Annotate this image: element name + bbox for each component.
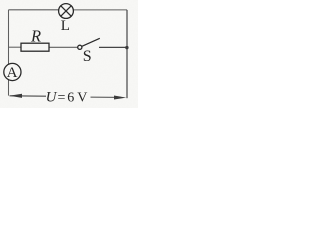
svg-text:U: U	[46, 90, 58, 106]
wire top-left segment	[9, 9, 59, 11]
wire middle branch left lead	[9, 46, 22, 48]
svg-text:=: =	[58, 91, 66, 106]
svg-text:V: V	[77, 91, 87, 106]
junction node right	[125, 46, 128, 49]
wire top-right segment	[73, 9, 127, 11]
wire right side	[126, 10, 128, 98]
svg-text:R: R	[30, 26, 41, 45]
svg-text:A: A	[7, 65, 18, 81]
svg-text:L: L	[61, 18, 70, 34]
svg-text:6: 6	[67, 91, 74, 106]
voltage annotation right arrow	[91, 96, 127, 100]
svg-text:S: S	[83, 48, 92, 65]
wire left side upper	[8, 10, 10, 65]
paper grain	[0, 0, 138, 108]
voltage annotation left arrow	[9, 94, 46, 98]
lamp L1	[59, 4, 74, 19]
switch S1	[78, 38, 100, 49]
wire left side lower	[8, 80, 10, 96]
wire resistor to switch	[49, 46, 78, 48]
ammeter A1	[4, 63, 21, 80]
background	[0, 0, 138, 108]
wire switch to right side	[99, 46, 127, 48]
resistor R1	[21, 43, 49, 51]
